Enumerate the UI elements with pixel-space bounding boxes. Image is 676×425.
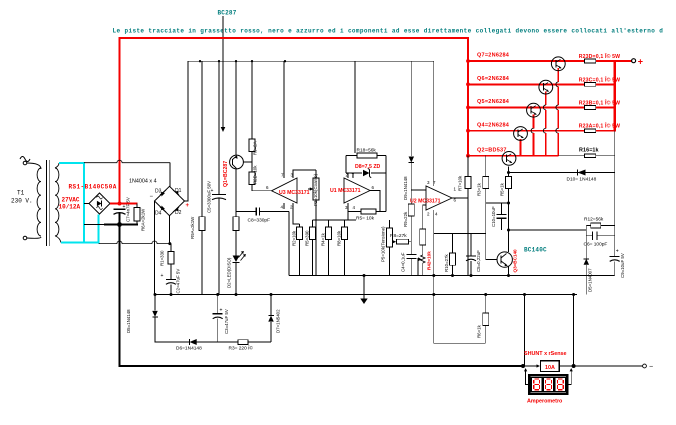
svg-text:Q7=2N6284: Q7=2N6284 xyxy=(477,53,510,59)
svg-text:D6=1N4148: D6=1N4148 xyxy=(176,346,202,352)
svg-text:R3= 220 Î©: R3= 220 Î© xyxy=(229,345,254,352)
svg-text:U2 MC33171: U2 MC33171 xyxy=(410,199,441,205)
svg-text:U3 MC33171: U3 MC33171 xyxy=(279,190,310,196)
svg-text:27VAC: 27VAC xyxy=(62,197,80,204)
svg-text:D2=LED(DISO): D2=LED(DISO) xyxy=(227,257,232,288)
svg-text:D5=1N4007: D5=1N4007 xyxy=(588,268,593,292)
svg-text:R23D=0,1 Î© 5W: R23D=0,1 Î© 5W xyxy=(579,52,621,60)
svg-text:R9A=2k1W: R9A=2k1W xyxy=(190,216,195,239)
svg-text:D5=1N4148: D5=1N4148 xyxy=(126,309,131,333)
svg-text:C5=3300uF 50V: C5=3300uF 50V xyxy=(207,181,212,213)
svg-text:BC287: BC287 xyxy=(218,10,237,17)
svg-text:R3=1k: R3=1k xyxy=(477,182,482,196)
svg-text:R2D=10k: R2D=10k xyxy=(253,165,258,184)
svg-text:Amperometro: Amperometro xyxy=(527,399,563,405)
svg-text:R7=10k: R7=10k xyxy=(458,175,463,191)
svg-text:Q4=2N6284: Q4=2N6284 xyxy=(477,122,510,128)
svg-text:230 V.: 230 V. xyxy=(11,198,33,205)
svg-text:10/12A: 10/12A xyxy=(59,204,81,211)
svg-text:D8=7,5 ZD: D8=7,5 ZD xyxy=(355,164,380,170)
svg-text:−: − xyxy=(150,194,154,200)
svg-text:Q6=2N6284: Q6=2N6284 xyxy=(477,76,510,82)
svg-text:C8=330pF: C8=330pF xyxy=(248,218,271,224)
svg-text:D9=1N4148: D9=1N4148 xyxy=(403,176,408,200)
svg-text:R5=390: R5=390 xyxy=(305,230,310,246)
svg-text:D3: D3 xyxy=(155,189,162,195)
svg-text:BC140C: BC140C xyxy=(524,247,547,254)
svg-text:−: − xyxy=(649,364,653,371)
svg-text:R10=27k: R10=27k xyxy=(444,253,449,272)
svg-text:R6A=2k1W: R6A=2k1W xyxy=(141,208,146,231)
svg-text:C2=47uF 5V: C2=47uF 5V xyxy=(176,269,181,294)
svg-text:+: + xyxy=(186,203,190,209)
svg-text:+: + xyxy=(616,249,619,255)
svg-text:P2=10k(Coarse): P2=10k(Coarse) xyxy=(313,173,318,206)
svg-text:C7=4n7F 5V: C7=4n7F 5V xyxy=(126,197,131,222)
svg-text:R4=1k: R4=1k xyxy=(321,232,326,246)
svg-text:R23B=0,1 Î© 5W: R23B=0,1 Î© 5W xyxy=(579,98,621,106)
svg-text:C3=47uF 5V: C3=47uF 5V xyxy=(224,309,229,334)
svg-text:Q2=BD537: Q2=BD537 xyxy=(477,147,507,153)
svg-text:C6= 100pF: C6= 100pF xyxy=(584,242,608,248)
svg-text:R16=1k: R16=1k xyxy=(579,147,599,153)
svg-text:R18=56k: R18=56k xyxy=(357,148,377,154)
svg-text:Q5=2N6284: Q5=2N6284 xyxy=(477,99,510,105)
svg-text:C9=10uF 5V: C9=10uF 5V xyxy=(620,253,625,278)
svg-text:1N4004 x 4: 1N4004 x 4 xyxy=(129,179,157,185)
svg-text:R23C=0,1 Î© 5W: R23C=0,1 Î© 5W xyxy=(579,75,621,83)
svg-text:D10= 1N4148: D10= 1N4148 xyxy=(567,177,597,183)
svg-text:R1=330: R1=330 xyxy=(160,250,165,266)
svg-text:R6=1k: R6=1k xyxy=(477,324,482,338)
svg-text:P5=10k(Tensione): P5=10k(Tensione) xyxy=(381,226,386,262)
svg-text:C5=0,22uF: C5=0,22uF xyxy=(476,250,481,272)
svg-text:T1: T1 xyxy=(17,190,25,197)
svg-text:Q3=BC140: Q3=BC140 xyxy=(513,249,518,273)
svg-text:R8=10k: R8=10k xyxy=(337,230,342,246)
svg-text:Q1=BC287: Q1=BC287 xyxy=(223,161,229,187)
svg-text:C4=0,1uF: C4=0,1uF xyxy=(401,252,406,272)
svg-text:SHUNT x rSense: SHUNT x rSense xyxy=(524,351,567,357)
svg-text:D2: D2 xyxy=(175,210,182,216)
svg-text:D1: D1 xyxy=(175,188,182,194)
svg-text:10A: 10A xyxy=(545,365,555,371)
svg-text:R5=1k: R5=1k xyxy=(500,182,505,196)
svg-text:R5= 10k: R5= 10k xyxy=(356,216,375,222)
svg-text:R42=10k: R42=10k xyxy=(427,251,432,270)
svg-text:C10=10uF: C10=10uF xyxy=(491,206,496,227)
svg-text:D4: D4 xyxy=(155,211,162,217)
svg-text:U1 MC33171: U1 MC33171 xyxy=(330,188,361,194)
svg-text:R2=10k: R2=10k xyxy=(292,230,297,246)
svg-text:Le piste tracciate in grassett: Le piste tracciate in grassetto rosso, n… xyxy=(113,28,664,35)
svg-text:+: + xyxy=(638,57,643,67)
svg-text:+: + xyxy=(161,273,164,279)
svg-text:R9=22k: R9=22k xyxy=(403,211,408,227)
svg-text:R12=56k: R12=56k xyxy=(584,217,604,223)
svg-text:R9=2A: R9=2A xyxy=(253,141,258,155)
svg-text:+: + xyxy=(220,308,223,314)
svg-text:R23A=0,1 Î© 5W: R23A=0,1 Î© 5W xyxy=(579,122,621,130)
svg-text:R8=27k: R8=27k xyxy=(390,233,407,239)
svg-text:D7=1N5402: D7=1N5402 xyxy=(276,309,281,333)
svg-text:RS1-B140C50A: RS1-B140C50A xyxy=(69,184,117,191)
